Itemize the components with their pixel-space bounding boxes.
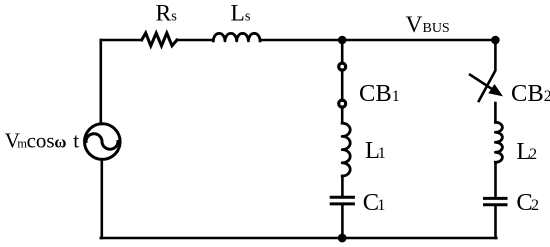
svg-text:CB2: CB2	[511, 80, 550, 107]
svg-text:Ls: Ls	[231, 1, 251, 27]
svg-text:L1: L1	[365, 137, 386, 164]
svg-text:Vmcosωt: Vmcosωt	[5, 128, 80, 152]
svg-text:CB1: CB1	[359, 80, 400, 107]
svg-text:C1: C1	[363, 189, 386, 216]
svg-text:L2: L2	[516, 138, 537, 165]
svg-text:C2: C2	[516, 189, 539, 216]
svg-text:Rs: Rs	[156, 1, 178, 27]
svg-text:VBUS: VBUS	[406, 12, 450, 38]
